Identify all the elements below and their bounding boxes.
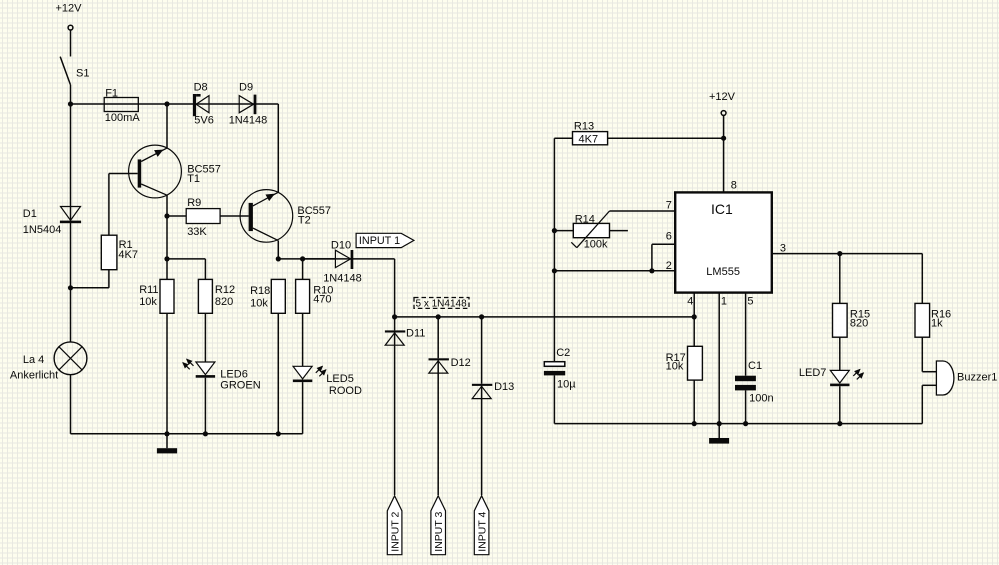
node junction D13 — [479, 314, 484, 319]
svg-text:820: 820 — [850, 318, 868, 330]
svg-text:D9: D9 — [239, 81, 253, 93]
svg-text:8: 8 — [731, 180, 737, 192]
wire D10 row to input column — [303, 259, 395, 317]
svg-text:100n: 100n — [749, 393, 773, 405]
buzzer Buzzer1 — [936, 361, 997, 395]
transistor T2 BC557 — [240, 190, 331, 243]
svg-text:LED5: LED5 — [326, 373, 354, 385]
svg-text:R18: R18 — [250, 285, 270, 297]
svg-text:10k: 10k — [139, 296, 157, 308]
wire T1 collector down — [166, 195, 168, 216]
svg-text:10µ: 10µ — [557, 378, 576, 390]
diode D13 — [472, 317, 514, 495]
svg-text:C1: C1 — [748, 360, 762, 372]
wire R17 to bottom rail — [693, 380, 695, 424]
svg-text:INPUT 2: INPUT 2 — [389, 511, 401, 551]
svg-text:IC1: IC1 — [711, 201, 733, 217]
wire +12V to pin 8 — [723, 115, 725, 192]
svg-text:820: 820 — [215, 296, 233, 308]
pin 6 stub — [652, 231, 675, 271]
svg-text:10k: 10k — [666, 360, 684, 372]
svg-text:D11: D11 — [406, 328, 425, 340]
node junction pin3/R15 — [837, 251, 842, 256]
svg-text:1: 1 — [721, 296, 727, 308]
svg-text:INPUT 1: INPUT 1 — [359, 235, 400, 247]
svg-text:GROEN: GROEN — [220, 380, 260, 392]
resistor R12 820 — [198, 279, 235, 313]
transistor T1 BC557 — [129, 145, 221, 198]
wire LED6 to bottom rail — [204, 378, 206, 434]
svg-text:4K7: 4K7 — [579, 133, 599, 145]
wire junction to R12 top — [167, 259, 205, 280]
wire bottom rail left — [71, 433, 303, 435]
flag INPUT 3 — [431, 496, 446, 555]
svg-text:5 x 1N4148: 5 x 1N4148 — [416, 298, 468, 309]
resistor R16 1k — [915, 303, 951, 337]
svg-text:LED6: LED6 — [220, 369, 248, 381]
node junction D11 — [392, 314, 397, 319]
node junction rail/pin2 — [552, 268, 557, 273]
ground (left) — [157, 434, 177, 454]
node junction bottom/R17 — [692, 421, 697, 426]
node junction +12V/R13 — [721, 136, 726, 141]
node junction T1/R9 — [164, 213, 169, 218]
wire trimmer to pin 7 — [610, 210, 676, 212]
pin 2 wire — [554, 260, 675, 272]
wire switch to top rail — [70, 85, 72, 104]
resistor R1 4K7 — [101, 235, 138, 270]
pin 8 label — [731, 180, 737, 192]
diode D10 1N4148 — [323, 240, 362, 285]
svg-text:5: 5 — [747, 296, 753, 308]
node junction bottom/R18 — [276, 431, 281, 436]
wire R9 to T2 base — [220, 215, 249, 217]
svg-text:C2: C2 — [556, 347, 570, 359]
wire top node down to T1 emitter — [166, 104, 168, 148]
LED LED5 ROOD — [293, 366, 362, 397]
wire R10 to LED5 — [302, 313, 304, 366]
wire T2 collector to R18 node — [277, 241, 279, 259]
fuse F1 100mA — [104, 88, 140, 125]
wire C2 to bottom rail — [553, 375, 555, 423]
node junction bottom/LED6 — [203, 431, 208, 436]
svg-text:6: 6 — [666, 231, 672, 243]
pin 3 wire — [772, 243, 923, 255]
svg-text:Ankerlicht: Ankerlicht — [10, 369, 58, 381]
capacitor C2 10u — [544, 271, 576, 391]
pin 4 wire — [687, 293, 694, 347]
svg-text:100mA: 100mA — [105, 112, 141, 124]
flag INPUT 2 — [387, 496, 402, 555]
wire R16 to buzzer — [922, 337, 936, 372]
wire T1 column to R11 row — [166, 216, 168, 259]
label 5 x 1N4148 (dashed box) — [414, 298, 469, 310]
svg-text:T1: T1 — [187, 173, 200, 185]
resistor R11 10k — [139, 259, 174, 313]
node junction bottom/R11 — [164, 431, 169, 436]
svg-text:100k: 100k — [584, 238, 608, 250]
wire fuse to T1 node — [138, 103, 167, 105]
pin 1 wire — [719, 293, 727, 438]
svg-text:1k: 1k — [931, 318, 943, 330]
node junction bottom/pin1 — [717, 421, 722, 426]
wire C1 to bottom rail — [745, 390, 747, 423]
svg-text:INPUT 3: INPUT 3 — [433, 511, 445, 551]
wire buzzer to bottom rail — [922, 385, 936, 423]
svg-text:D12: D12 — [451, 357, 471, 369]
wire top-rail down through D1 to lamp — [70, 104, 72, 342]
svg-text:D10: D10 — [331, 240, 351, 252]
wire top rail to fuse — [71, 103, 105, 105]
wire pin3 to R16 — [921, 254, 923, 304]
svg-text:2: 2 — [666, 260, 672, 272]
svg-text:7: 7 — [666, 200, 672, 212]
wire input bus row — [395, 316, 695, 318]
LED LED7 — [799, 367, 864, 386]
svg-text:T2: T2 — [298, 214, 311, 226]
svg-text:R11: R11 — [139, 284, 158, 296]
svg-text:470: 470 — [313, 293, 331, 305]
pin 5 wire — [746, 293, 754, 376]
svg-text:ROOD: ROOD — [329, 385, 362, 397]
svg-text:10k: 10k — [250, 297, 268, 309]
pin 7 label — [666, 200, 672, 212]
wire pin3 node to R15 — [839, 254, 841, 304]
wire LED5 to bottom rail corner — [302, 382, 304, 434]
svg-text:R12: R12 — [215, 284, 235, 296]
svg-text:La 4: La 4 — [23, 354, 44, 366]
resistor R10 470 — [296, 279, 334, 313]
svg-text:LM555: LM555 — [706, 266, 740, 278]
svg-text:Buzzer1: Buzzer1 — [957, 372, 997, 384]
node junction S1/top-rail — [68, 101, 73, 106]
wire node to D10 — [303, 259, 336, 280]
node junction R14 left — [552, 228, 557, 233]
svg-text:R13: R13 — [574, 121, 594, 133]
resistor R17 10k — [666, 346, 703, 380]
wire junction to R9 — [167, 215, 186, 217]
wire R11 to bottom rail — [166, 313, 168, 434]
svg-text:S1: S1 — [76, 68, 89, 80]
wire lamp to bottom rail — [70, 375, 72, 434]
switch S1 — [60, 57, 89, 85]
diode D9 1N4148 — [229, 81, 268, 126]
svg-text:R14: R14 — [575, 213, 595, 225]
resistor R13 4K7 — [554, 121, 723, 146]
svg-text:F1: F1 — [105, 88, 118, 100]
zener diode D8 5V6 — [193, 81, 214, 126]
svg-text:1N4148: 1N4148 — [229, 114, 268, 126]
svg-text:4K7: 4K7 — [118, 249, 138, 261]
net flag INPUT 1 — [356, 233, 414, 247]
wire to R10 node — [278, 258, 302, 260]
svg-text:4: 4 — [687, 296, 693, 308]
svg-text:+12V: +12V — [56, 3, 83, 15]
node junction pin4/input-bus — [692, 314, 697, 319]
LED LED6 GROEN — [183, 359, 261, 392]
svg-text:R9: R9 — [187, 197, 201, 209]
svg-text:LED7: LED7 — [799, 367, 827, 379]
node junction bottom/C1 — [743, 421, 748, 426]
trimmer R14 100k — [554, 211, 628, 250]
diode D12 — [429, 317, 471, 495]
node junction top-rail/T1 — [164, 101, 169, 106]
wire terminal to switch — [70, 30, 72, 56]
node junction R10 top — [300, 256, 305, 261]
resistor R15 820 — [833, 303, 871, 337]
wire R18 to bottom rail — [277, 313, 279, 434]
svg-text:3: 3 — [780, 243, 786, 255]
svg-text:1N4148: 1N4148 — [323, 272, 362, 284]
wire node to T2 column — [167, 104, 278, 192]
wire T1 base to R1 — [109, 174, 138, 236]
power terminal +12V (right) — [709, 91, 736, 116]
wire R13 rail down — [553, 138, 555, 271]
node junction bottom/LED7 — [837, 421, 842, 426]
capacitor C1 100n — [735, 360, 774, 405]
svg-text:33K: 33K — [187, 226, 207, 238]
wire R12 to LED6 — [204, 313, 206, 362]
diode D11 — [385, 317, 425, 495]
svg-text:+12V: +12V — [709, 91, 736, 103]
wire bottom rail right — [554, 423, 922, 425]
IC U1 IC1 LM555 — [675, 192, 772, 292]
node junction pin6/pin2 — [649, 268, 654, 273]
lamp La 4 Ankerlicht — [10, 342, 87, 381]
resistor R9 33K — [186, 197, 220, 238]
node junction T2/R18 — [276, 256, 281, 261]
resistor R18 10k — [250, 279, 285, 313]
wire R15 to LED7 — [839, 337, 841, 370]
svg-text:INPUT 4: INPUT 4 — [476, 511, 488, 551]
power terminal +12V (left) — [56, 3, 83, 30]
diode D1 1N5404 — [23, 207, 81, 237]
svg-text:D8: D8 — [194, 81, 208, 93]
ground (right) — [709, 438, 729, 444]
svg-text:5V6: 5V6 — [194, 114, 214, 126]
wire LED7 to bottom rail — [839, 386, 841, 423]
svg-text:D13: D13 — [494, 381, 514, 393]
node junction D12 — [436, 314, 441, 319]
wire R1 bottom to D1 column — [71, 270, 109, 288]
node junction D1/R1 — [68, 285, 73, 290]
svg-text:D1: D1 — [23, 208, 37, 220]
node junction R11 top — [164, 256, 169, 261]
flag INPUT 4 — [474, 496, 489, 555]
svg-text:1N5404: 1N5404 — [23, 224, 62, 236]
